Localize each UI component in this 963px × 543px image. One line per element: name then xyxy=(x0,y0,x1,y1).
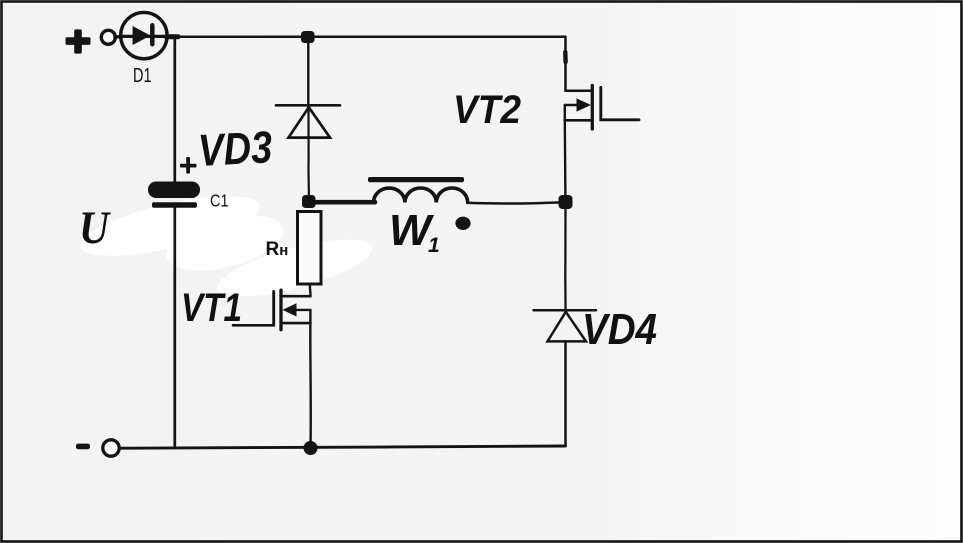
terminal circle (-) xyxy=(103,440,119,456)
node A: VD3 / Rn / W1 junction xyxy=(302,195,316,208)
diode VD4 xyxy=(534,209,597,446)
label + (C1 polarity) xyxy=(180,157,197,174)
node: bottom junction xyxy=(304,441,318,455)
svg-text:U: U xyxy=(79,202,111,254)
wire: Rn bottom to VT1 drain xyxy=(309,285,312,297)
svg-text:VT2: VT2 xyxy=(453,88,521,132)
polarity dot of winding W1 xyxy=(455,217,470,230)
wire: bottom rail xyxy=(121,446,566,448)
wire: terminal to D1 xyxy=(115,35,122,39)
wire: VT2 source down to node B xyxy=(564,120,567,195)
inductor W1 xyxy=(368,177,468,203)
label W1 xyxy=(389,206,440,257)
svg-text:C1: C1 xyxy=(210,191,229,211)
svg-text:VD4: VD4 xyxy=(582,305,657,354)
svg-text:Rн: Rн xyxy=(266,239,289,260)
svg-text:1: 1 xyxy=(428,234,440,257)
node B: W1 / VT2 source / VD4 junction xyxy=(559,195,573,209)
svg-text:VD3: VD3 xyxy=(197,121,274,176)
diode VD3 xyxy=(276,43,340,196)
diode D1 xyxy=(121,12,167,58)
wire: VT1 source down to bottom junction xyxy=(309,323,312,448)
terminal plus symbol (+ input) xyxy=(66,29,91,53)
white eraser smudge near U label xyxy=(75,184,377,308)
svg-text:D1: D1 xyxy=(133,65,152,87)
svg-text:VT1: VT1 xyxy=(181,286,242,330)
terminal minus symbol (- input) xyxy=(76,444,90,450)
transistor VT2 xyxy=(565,38,639,129)
terminal circle (+) xyxy=(101,30,115,44)
wire: left rail from D1 down to C1 xyxy=(173,37,176,182)
wire: top rail from D1 to VT2 branch xyxy=(166,34,178,39)
wire: node A to inductor W1 xyxy=(309,200,375,205)
node: top junction at VD3 branch xyxy=(301,31,315,43)
resistor Rn (load) xyxy=(298,212,322,285)
wire: left rail from C1 to bottom rail xyxy=(173,208,176,448)
transistor VT1 xyxy=(233,290,310,330)
capacitor C1 xyxy=(148,182,200,208)
wire: W1 to node B xyxy=(468,202,565,203)
